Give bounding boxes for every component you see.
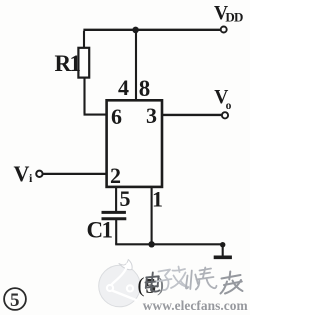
terminal Vo — [222, 112, 228, 118]
wire pin 3 to Vo — [162, 114, 222, 116]
watermark characters dian-zi-fa-shao-you — [146, 267, 243, 294]
svg-text:1: 1 — [152, 187, 163, 212]
junction dot top rail / pin4-8 riser — [132, 27, 139, 34]
label Vo — [214, 87, 231, 112]
wire pin 1 down — [151, 187, 153, 244]
svg-text:3: 3 — [146, 103, 157, 128]
svg-text:R1: R1 — [55, 51, 81, 76]
svg-text:www.elecfans.com: www.elecfans.com — [143, 298, 248, 313]
terminal VDD — [221, 27, 227, 33]
svg-text:(: ( — [138, 273, 145, 297]
svg-text:o: o — [226, 100, 232, 112]
svg-text:5: 5 — [10, 290, 20, 311]
resistor R1 — [78, 48, 89, 78]
junction dot pin1 / ground rail — [148, 241, 154, 247]
wire C1 bottom lead — [115, 220, 117, 244]
capacitor C1 — [102, 212, 127, 218]
watermark figure label (5) — [138, 272, 165, 298]
label VDD — [214, 3, 243, 25]
svg-text:C1: C1 — [87, 218, 113, 243]
svg-text:V: V — [14, 161, 30, 186]
svg-text:DD: DD — [225, 9, 243, 24]
wire pin 5 to C1 — [115, 187, 117, 212]
svg-text:2: 2 — [110, 163, 121, 188]
wire pins 4,8 to VDD rail — [135, 30, 137, 101]
wire R1 top lead — [83, 31, 85, 48]
wire R1 bottom lead to pin 6 — [84, 78, 108, 115]
svg-text:6: 6 — [111, 104, 122, 129]
watermark url www.elecfans.com — [143, 298, 249, 314]
svg-text:4: 4 — [118, 75, 129, 100]
svg-text:5: 5 — [120, 186, 131, 211]
svg-text:8: 8 — [139, 76, 151, 101]
IC U1 (timer) — [107, 100, 162, 187]
label Vi — [14, 161, 34, 186]
terminal Vi — [36, 171, 42, 177]
wire ground rail (bottom) — [115, 243, 223, 245]
wire Vi to pin 2 — [43, 173, 107, 175]
wire VDD rail (top) — [83, 29, 220, 31]
watermark logo disc — [99, 260, 141, 307]
ground — [214, 242, 232, 257]
figure number 5 (circled) — [4, 288, 26, 311]
